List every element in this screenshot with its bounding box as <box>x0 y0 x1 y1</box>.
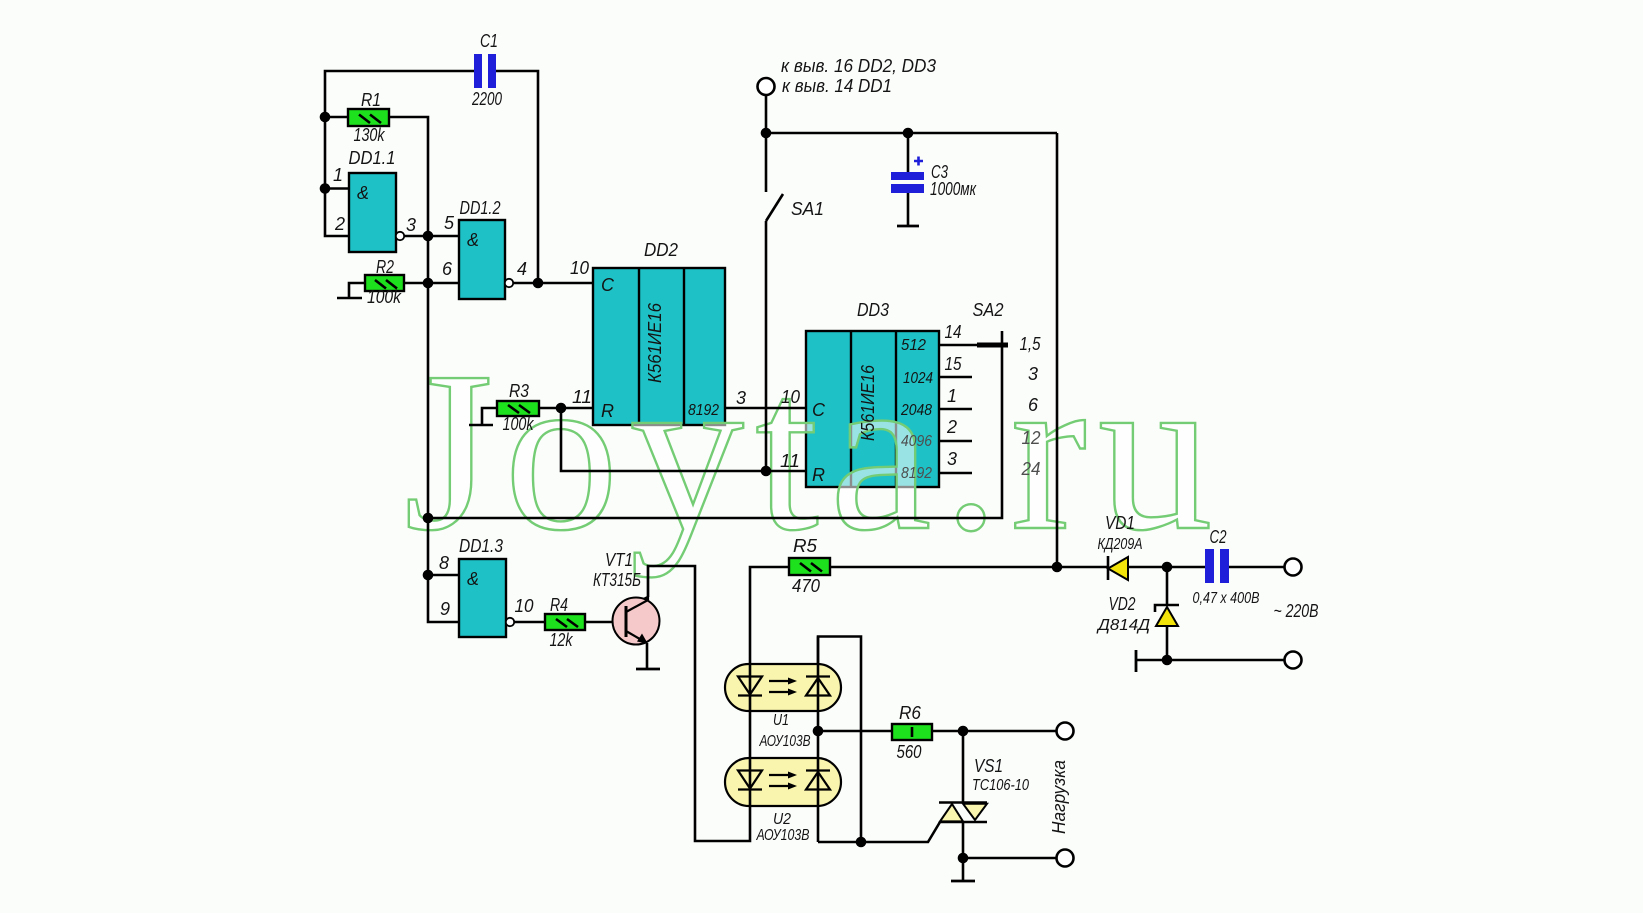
wire R4 to VT1 base <box>585 621 626 624</box>
node pin3/pin5 <box>423 231 434 242</box>
svg-text:1024: 1024 <box>903 370 933 387</box>
ground R3 <box>469 424 493 427</box>
svg-text:КТ315Б: КТ315Б <box>593 570 641 590</box>
svg-text:КД209А: КД209А <box>1098 536 1143 553</box>
svg-text:C: C <box>601 275 615 295</box>
svg-text:6: 6 <box>1028 395 1039 415</box>
svg-text:&: & <box>467 569 479 589</box>
svg-text:SA2: SA2 <box>973 300 1004 320</box>
wire opto to R6 <box>818 730 892 733</box>
output bubble DD1.1 <box>396 232 404 240</box>
svg-text:R: R <box>601 401 614 421</box>
svg-text:VT1: VT1 <box>605 550 633 570</box>
wire SA1 arm <box>766 194 783 221</box>
capacitor C2 <box>1205 549 1229 583</box>
svg-text:8: 8 <box>439 553 449 573</box>
ground C3 <box>897 225 919 228</box>
zener VD2 <box>1155 605 1179 626</box>
counter DD2 <box>593 268 725 425</box>
wire R1 right + main left vertical <box>389 117 459 622</box>
svg-text:U2: U2 <box>773 811 791 828</box>
diode VD1 <box>1108 556 1128 580</box>
svg-text:К561ИЕ16: К561ИЕ16 <box>858 364 878 441</box>
svg-text:8192: 8192 <box>688 402 719 419</box>
svg-text:к выв. 16 DD2, DD3: к выв. 16 DD2, DD3 <box>781 56 936 76</box>
svg-text:0,47 x 400В: 0,47 x 400В <box>1193 590 1260 607</box>
optocoupler U2 body <box>725 758 841 806</box>
wire right bus <box>1056 133 1059 567</box>
svg-text:SA1: SA1 <box>791 199 824 219</box>
node SA1/reset <box>761 466 772 477</box>
wire R6 to terminal <box>932 730 1056 733</box>
node VD2 bottom <box>1162 655 1173 666</box>
wire top power rail <box>766 132 1057 135</box>
svg-text:8192: 8192 <box>901 465 932 482</box>
svg-text:VS1: VS1 <box>974 756 1003 776</box>
wire VD2 bottom <box>1166 626 1169 660</box>
optocoupler U1 body <box>725 664 841 711</box>
wire DD2 out to DD3 C <box>725 407 806 410</box>
wire VD2 top <box>1166 567 1169 606</box>
svg-text:C: C <box>812 400 826 420</box>
wire load bottom <box>963 857 1056 860</box>
counter DD3 <box>806 331 939 487</box>
svg-text:1: 1 <box>947 386 957 406</box>
wire DD1.3 out to R4 <box>514 621 545 624</box>
resistor R5 <box>789 558 830 575</box>
svg-text:15: 15 <box>945 354 963 374</box>
svg-text:1: 1 <box>333 165 343 185</box>
wire SA1 terminal down <box>765 95 768 133</box>
output bubble DD1.2 <box>505 279 513 287</box>
wire gate line <box>818 822 940 842</box>
wire R3 left + ground stub <box>482 408 497 425</box>
svg-text:Нагрузка: Нагрузка <box>1049 760 1069 834</box>
wire opto output chain <box>817 637 820 843</box>
svg-text:10: 10 <box>781 387 800 407</box>
svg-text:ТС106-10: ТС106-10 <box>972 777 1029 794</box>
svg-text:Д814Д: Д814Д <box>1096 617 1150 634</box>
wire LED chain vertical <box>648 566 789 841</box>
svg-text:АОУ103В: АОУ103В <box>759 733 811 750</box>
svg-text:12: 12 <box>1022 428 1041 448</box>
svg-text:2: 2 <box>946 417 957 437</box>
transistor VT1 <box>613 566 660 645</box>
wire DD3 outputs <box>939 344 977 347</box>
wire VT1 emitter down <box>646 643 649 669</box>
ground VT1 emitter <box>636 668 660 671</box>
node bus/R5 <box>1052 562 1063 573</box>
terminal 220V bottom <box>1285 652 1302 669</box>
wire R5 right <box>830 566 1108 569</box>
svg-text:DD3: DD3 <box>857 300 889 320</box>
svg-text:R: R <box>812 465 825 485</box>
svg-text:24: 24 <box>1021 459 1041 479</box>
wire C1 right to DD1.2 out <box>496 71 538 283</box>
svg-text:11: 11 <box>780 451 800 471</box>
wire C2 to terminal <box>1228 566 1285 569</box>
svg-text:1000мк: 1000мк <box>930 179 977 199</box>
svg-text:R5: R5 <box>793 536 818 556</box>
wire SA1 upper <box>765 133 768 192</box>
node gate <box>856 837 867 848</box>
svg-text:560: 560 <box>897 742 922 762</box>
svg-text:6: 6 <box>442 259 453 279</box>
svg-text:3: 3 <box>947 449 957 469</box>
node C3 top <box>903 128 914 139</box>
wire bottom 220V line <box>1136 659 1285 662</box>
svg-text:2200: 2200 <box>471 89 502 109</box>
switch SA2 selected bar <box>977 343 1008 348</box>
node R3/DD2 R <box>556 403 567 414</box>
resistor R1 <box>348 109 389 126</box>
svg-text:&: & <box>467 230 479 250</box>
svg-text:1,5: 1,5 <box>1020 334 1042 354</box>
wire SA2 stem + bottom feedback <box>428 331 1002 518</box>
wire R1 left <box>325 116 348 119</box>
wire VD1 to C2 <box>1128 566 1205 569</box>
wire reset link down <box>561 408 806 471</box>
svg-text:10: 10 <box>515 596 534 616</box>
svg-text:512: 512 <box>901 337 926 354</box>
wire DD1.2 out to DD2 C <box>513 282 593 285</box>
gate DD1.2 <box>459 220 505 299</box>
svg-text:R3: R3 <box>509 381 529 401</box>
node opto mid <box>813 726 824 737</box>
wire SA1 lower <box>765 221 768 471</box>
svg-text:DD2: DD2 <box>644 240 678 260</box>
node R6/triac <box>958 726 969 737</box>
gate DD1.3 <box>459 559 506 637</box>
capacitor C1 <box>474 54 496 88</box>
node VD1/C2/VD2 <box>1162 562 1173 573</box>
svg-text:3: 3 <box>406 215 416 235</box>
terminal load top <box>1057 723 1074 740</box>
svg-text:DD1.2: DD1.2 <box>460 198 501 218</box>
wire R2 right to DD1.2 pin6 <box>404 282 459 285</box>
svg-text:R6: R6 <box>899 703 922 723</box>
ground stub 220V <box>1135 650 1138 672</box>
node feedback <box>423 513 434 524</box>
terminal load bottom <box>1057 850 1074 867</box>
ground triac <box>951 880 975 883</box>
svg-text:VD2: VD2 <box>1109 594 1136 614</box>
wire C3 bottom <box>907 193 910 226</box>
svg-text:4: 4 <box>517 259 527 279</box>
node R2/pin6 <box>423 278 434 289</box>
wire R3 right to DD2 R <box>539 407 593 410</box>
terminal SA1 <box>758 78 775 95</box>
svg-text:к выв. 14 DD1: к выв. 14 DD1 <box>782 76 892 96</box>
node DD1.1 pin1 <box>320 183 331 194</box>
svg-text:К561ИЕ16: К561ИЕ16 <box>645 302 665 383</box>
svg-text:&: & <box>357 183 369 203</box>
svg-text:4096: 4096 <box>901 433 932 450</box>
node R1 left <box>320 112 331 123</box>
wire VT1 collector <box>626 597 648 608</box>
svg-text:DD1.1: DD1.1 <box>349 148 396 168</box>
resistor R4 <box>545 614 585 630</box>
svg-text:12k: 12k <box>550 630 574 650</box>
svg-text:R2: R2 <box>376 257 394 277</box>
optocoupler U2 <box>738 771 830 790</box>
svg-text:9: 9 <box>440 599 450 619</box>
resistor R6 <box>892 724 932 740</box>
triac VS1 <box>939 803 987 823</box>
svg-text:2: 2 <box>334 214 345 234</box>
optocoupler U1 <box>738 677 830 696</box>
svg-text:130k: 130k <box>354 125 386 145</box>
svg-text:5: 5 <box>444 213 455 233</box>
svg-text:U1: U1 <box>773 712 789 729</box>
node DD1.3 pin8 <box>423 570 434 581</box>
wire DD1.1 out to DD1.2 pin5 <box>404 235 459 238</box>
svg-text:10: 10 <box>570 258 589 278</box>
capacitor C3 <box>891 157 924 194</box>
node C1/DD2 C <box>533 278 544 289</box>
svg-text:R1: R1 <box>361 90 381 110</box>
resistor R2 <box>365 275 404 291</box>
svg-text:VD1: VD1 <box>1105 513 1135 533</box>
gate DD1.1 <box>349 173 396 252</box>
terminal 220V top <box>1285 559 1302 576</box>
wire U1 top loop <box>818 637 861 843</box>
wire triac cathode <box>962 822 965 881</box>
ground R2 <box>337 297 362 300</box>
svg-text:2048: 2048 <box>900 402 932 419</box>
svg-text:АОУ103В: АОУ103В <box>756 827 810 844</box>
svg-text:R4: R4 <box>550 595 568 615</box>
resistor R3 <box>497 401 539 416</box>
wire C3 top <box>907 133 910 172</box>
svg-text:14: 14 <box>945 322 962 342</box>
svg-text:100k: 100k <box>503 414 535 434</box>
wire top loop <box>325 71 474 236</box>
svg-text:3: 3 <box>1028 364 1038 384</box>
svg-text:C2: C2 <box>1210 527 1227 547</box>
wire R2 left + ground stub <box>349 283 365 298</box>
output bubble DD1.3 <box>506 618 514 626</box>
svg-text:100k: 100k <box>367 287 402 307</box>
node SA1 top <box>761 128 772 139</box>
wire DD1.3 pin8 <box>428 574 459 577</box>
svg-text:3: 3 <box>736 388 746 408</box>
node triac/load <box>958 853 969 864</box>
wire triac anode <box>962 731 965 802</box>
in-box labels <box>357 183 826 589</box>
wire pin1 DD1.1 <box>325 187 349 190</box>
svg-text:470: 470 <box>792 576 820 596</box>
svg-text:C1: C1 <box>480 31 498 51</box>
svg-text:~ 220В: ~ 220В <box>1274 601 1319 621</box>
svg-text:DD1.3: DD1.3 <box>459 536 503 556</box>
svg-text:11: 11 <box>572 387 592 407</box>
